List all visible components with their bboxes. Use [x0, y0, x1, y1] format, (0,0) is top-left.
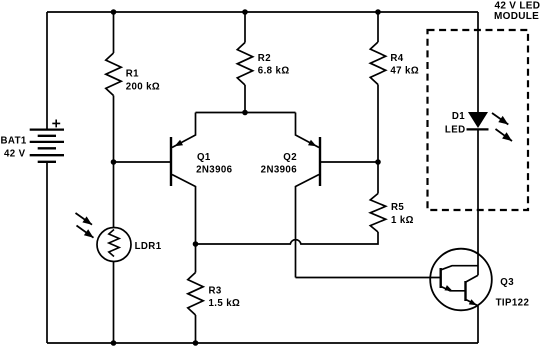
label LDR1	[135, 241, 162, 252]
LED emission arrows	[492, 113, 512, 141]
svg-text:MODULE: MODULE	[494, 11, 539, 22]
svg-text:R2: R2	[258, 53, 271, 64]
svg-text:42 V: 42 V	[4, 148, 26, 159]
LED module dashed box	[428, 30, 529, 210]
label BAT1 value	[1, 136, 27, 160]
svg-text:R1: R1	[126, 69, 139, 80]
svg-text:1 kΩ: 1 kΩ	[391, 215, 414, 226]
label R4 value	[390, 53, 419, 77]
wire battery negative to bottom rail	[46, 162, 48, 343]
wire Q2 base	[320, 161, 378, 163]
label R5 value	[391, 202, 414, 226]
svg-text:200 kΩ: 200 kΩ	[126, 82, 160, 93]
resistor R4	[370, 12, 385, 162]
wire right rail top	[477, 12, 479, 113]
label Q1 type	[196, 152, 233, 176]
svg-text:6.8 kΩ: 6.8 kΩ	[258, 66, 290, 77]
wire Q2 collector to Q3 base	[296, 277, 441, 279]
svg-text:2N3906: 2N3906	[261, 165, 298, 176]
svg-text:R4: R4	[390, 53, 403, 64]
wire Q1 base	[114, 161, 172, 163]
wire Q3 emitter to bottom rail	[477, 306, 479, 343]
label R1 value	[126, 69, 160, 93]
LDR1 light arrows	[76, 213, 94, 238]
resistor R5	[370, 162, 385, 232]
svg-text:Q2: Q2	[283, 152, 297, 163]
label Q3 type	[496, 277, 530, 308]
label Q2 type	[261, 152, 298, 176]
photoresistor LDR1	[97, 228, 131, 344]
battery BAT1	[30, 120, 64, 162]
label D1 LED	[445, 111, 466, 135]
wire left rail to battery	[46, 12, 48, 130]
svg-text:R3: R3	[209, 285, 222, 296]
wire bottom rail	[47, 342, 478, 344]
wire top rail	[47, 11, 478, 13]
wire emitter rail Q1-Q2	[196, 112, 296, 114]
transistor Q2	[296, 113, 321, 278]
resistor R3	[188, 244, 203, 343]
svg-text:Q1: Q1	[197, 152, 211, 163]
svg-text:Q3: Q3	[500, 277, 514, 288]
svg-text:R5: R5	[391, 202, 404, 213]
LED D1	[467, 112, 489, 129]
svg-text:D1: D1	[452, 111, 465, 122]
label R3 value	[209, 285, 241, 309]
svg-text:LDR1: LDR1	[135, 241, 162, 252]
resistor R1	[106, 12, 121, 228]
svg-text:TIP122: TIP122	[496, 297, 530, 308]
label R2 value	[258, 53, 290, 77]
label 42 V LED MODULE	[494, 0, 540, 22]
wire LED cathode to Q3 collector	[477, 129, 479, 275]
svg-text:LED: LED	[445, 124, 466, 135]
svg-text:BAT1: BAT1	[1, 136, 27, 147]
transistor Q1	[171, 113, 196, 245]
svg-text:42 V LED: 42 V LED	[495, 0, 540, 11]
svg-text:47 kΩ: 47 kΩ	[390, 65, 419, 76]
resistor R2	[237, 12, 252, 113]
svg-text:1.5 kΩ: 1.5 kΩ	[209, 298, 241, 309]
wire Q1 collector to R5 bottom with hop	[196, 232, 379, 244]
transistor Q3 darlington	[430, 249, 492, 311]
svg-text:2N3906: 2N3906	[196, 165, 233, 176]
